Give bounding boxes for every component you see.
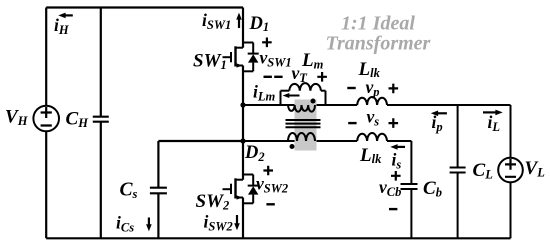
voltage label v_T minus — [274, 76, 282, 78]
transistor SW1 (MOSFET) — [223, 46, 244, 67]
current arrow i_s — [390, 144, 405, 150]
voltage label v_s minus — [348, 122, 356, 124]
voltage label v_p plus — [389, 84, 399, 94]
diode D1 (body diode of SW1) — [243, 43, 259, 72]
current arrow i_H — [58, 13, 73, 19]
wire C_s branch top — [157, 141, 159, 188]
capacitor C_L branch — [450, 105, 466, 238]
voltage label v_s plus — [389, 118, 399, 128]
wire secondary rail (y=141) — [243, 140, 411, 142]
voltage label v_SW1 minus — [264, 76, 272, 78]
inductor L_m branch — [281, 83, 326, 105]
voltage label v_T plus — [317, 72, 327, 82]
wire top rail — [46, 6, 243, 8]
capacitor C_H — [93, 117, 109, 122]
diode D2 (body diode of SW2) — [243, 175, 259, 204]
voltage label v_SW2 minus — [266, 203, 274, 205]
inductor L_lk primary coil — [357, 97, 387, 105]
wire bottom rail — [46, 237, 510, 239]
voltage label v_p minus — [347, 87, 355, 89]
current arrow i_L — [483, 110, 503, 116]
current arrow i_SW1 — [236, 13, 242, 28]
voltage label v_Cb plus — [391, 171, 401, 181]
node junction dot at bus/secondary — [240, 138, 245, 143]
wire C_H branch bottom — [100, 122, 102, 239]
transformer shaded core area — [295, 100, 317, 151]
current arrow i_SW2 — [234, 215, 240, 230]
transformer primary polarity dot — [311, 99, 316, 104]
wire left vertical bottom — [45, 131, 47, 238]
voltage label v_SW1 plus — [262, 38, 272, 48]
wire SW2 source to bottom rail — [242, 198, 244, 239]
voltage source V_H — [33, 106, 59, 132]
capacitor C_b branch — [401, 141, 418, 238]
transformer core lines — [286, 120, 321, 127]
svg-text:1:1 Ideal: 1:1 Ideal — [341, 13, 415, 35]
node junction dot at bus/primary — [240, 102, 245, 107]
current arrow i_p — [431, 111, 447, 117]
voltage label v_SW2 plus — [263, 166, 273, 176]
inductor L_lk secondary coil — [357, 133, 387, 141]
voltage source V_L — [498, 105, 523, 238]
wire C_s horizontal — [158, 140, 243, 142]
voltage label v_Cb minus — [389, 208, 397, 210]
transformer primary winding — [288, 105, 315, 112]
svg-text:Transformer: Transformer — [326, 33, 431, 55]
capacitor C_s — [150, 188, 167, 194]
wire C_s branch bottom — [157, 193, 159, 238]
wire SW1 drain bus — [242, 8, 244, 48]
wire primary rail (y=105) — [243, 104, 511, 106]
wire left vertical top (V_H branch) — [45, 8, 47, 106]
current arrow i_Lm — [283, 93, 300, 98]
wire mid bus (SW1 source to SW2 drain) — [242, 66, 244, 180]
transformer secondary winding — [288, 133, 315, 141]
transformer secondary polarity dot — [290, 144, 295, 149]
transistor SW2 (MOSFET) — [223, 178, 244, 199]
wire C_H branch top — [100, 8, 102, 117]
current arrow i_Cs — [146, 218, 152, 232]
